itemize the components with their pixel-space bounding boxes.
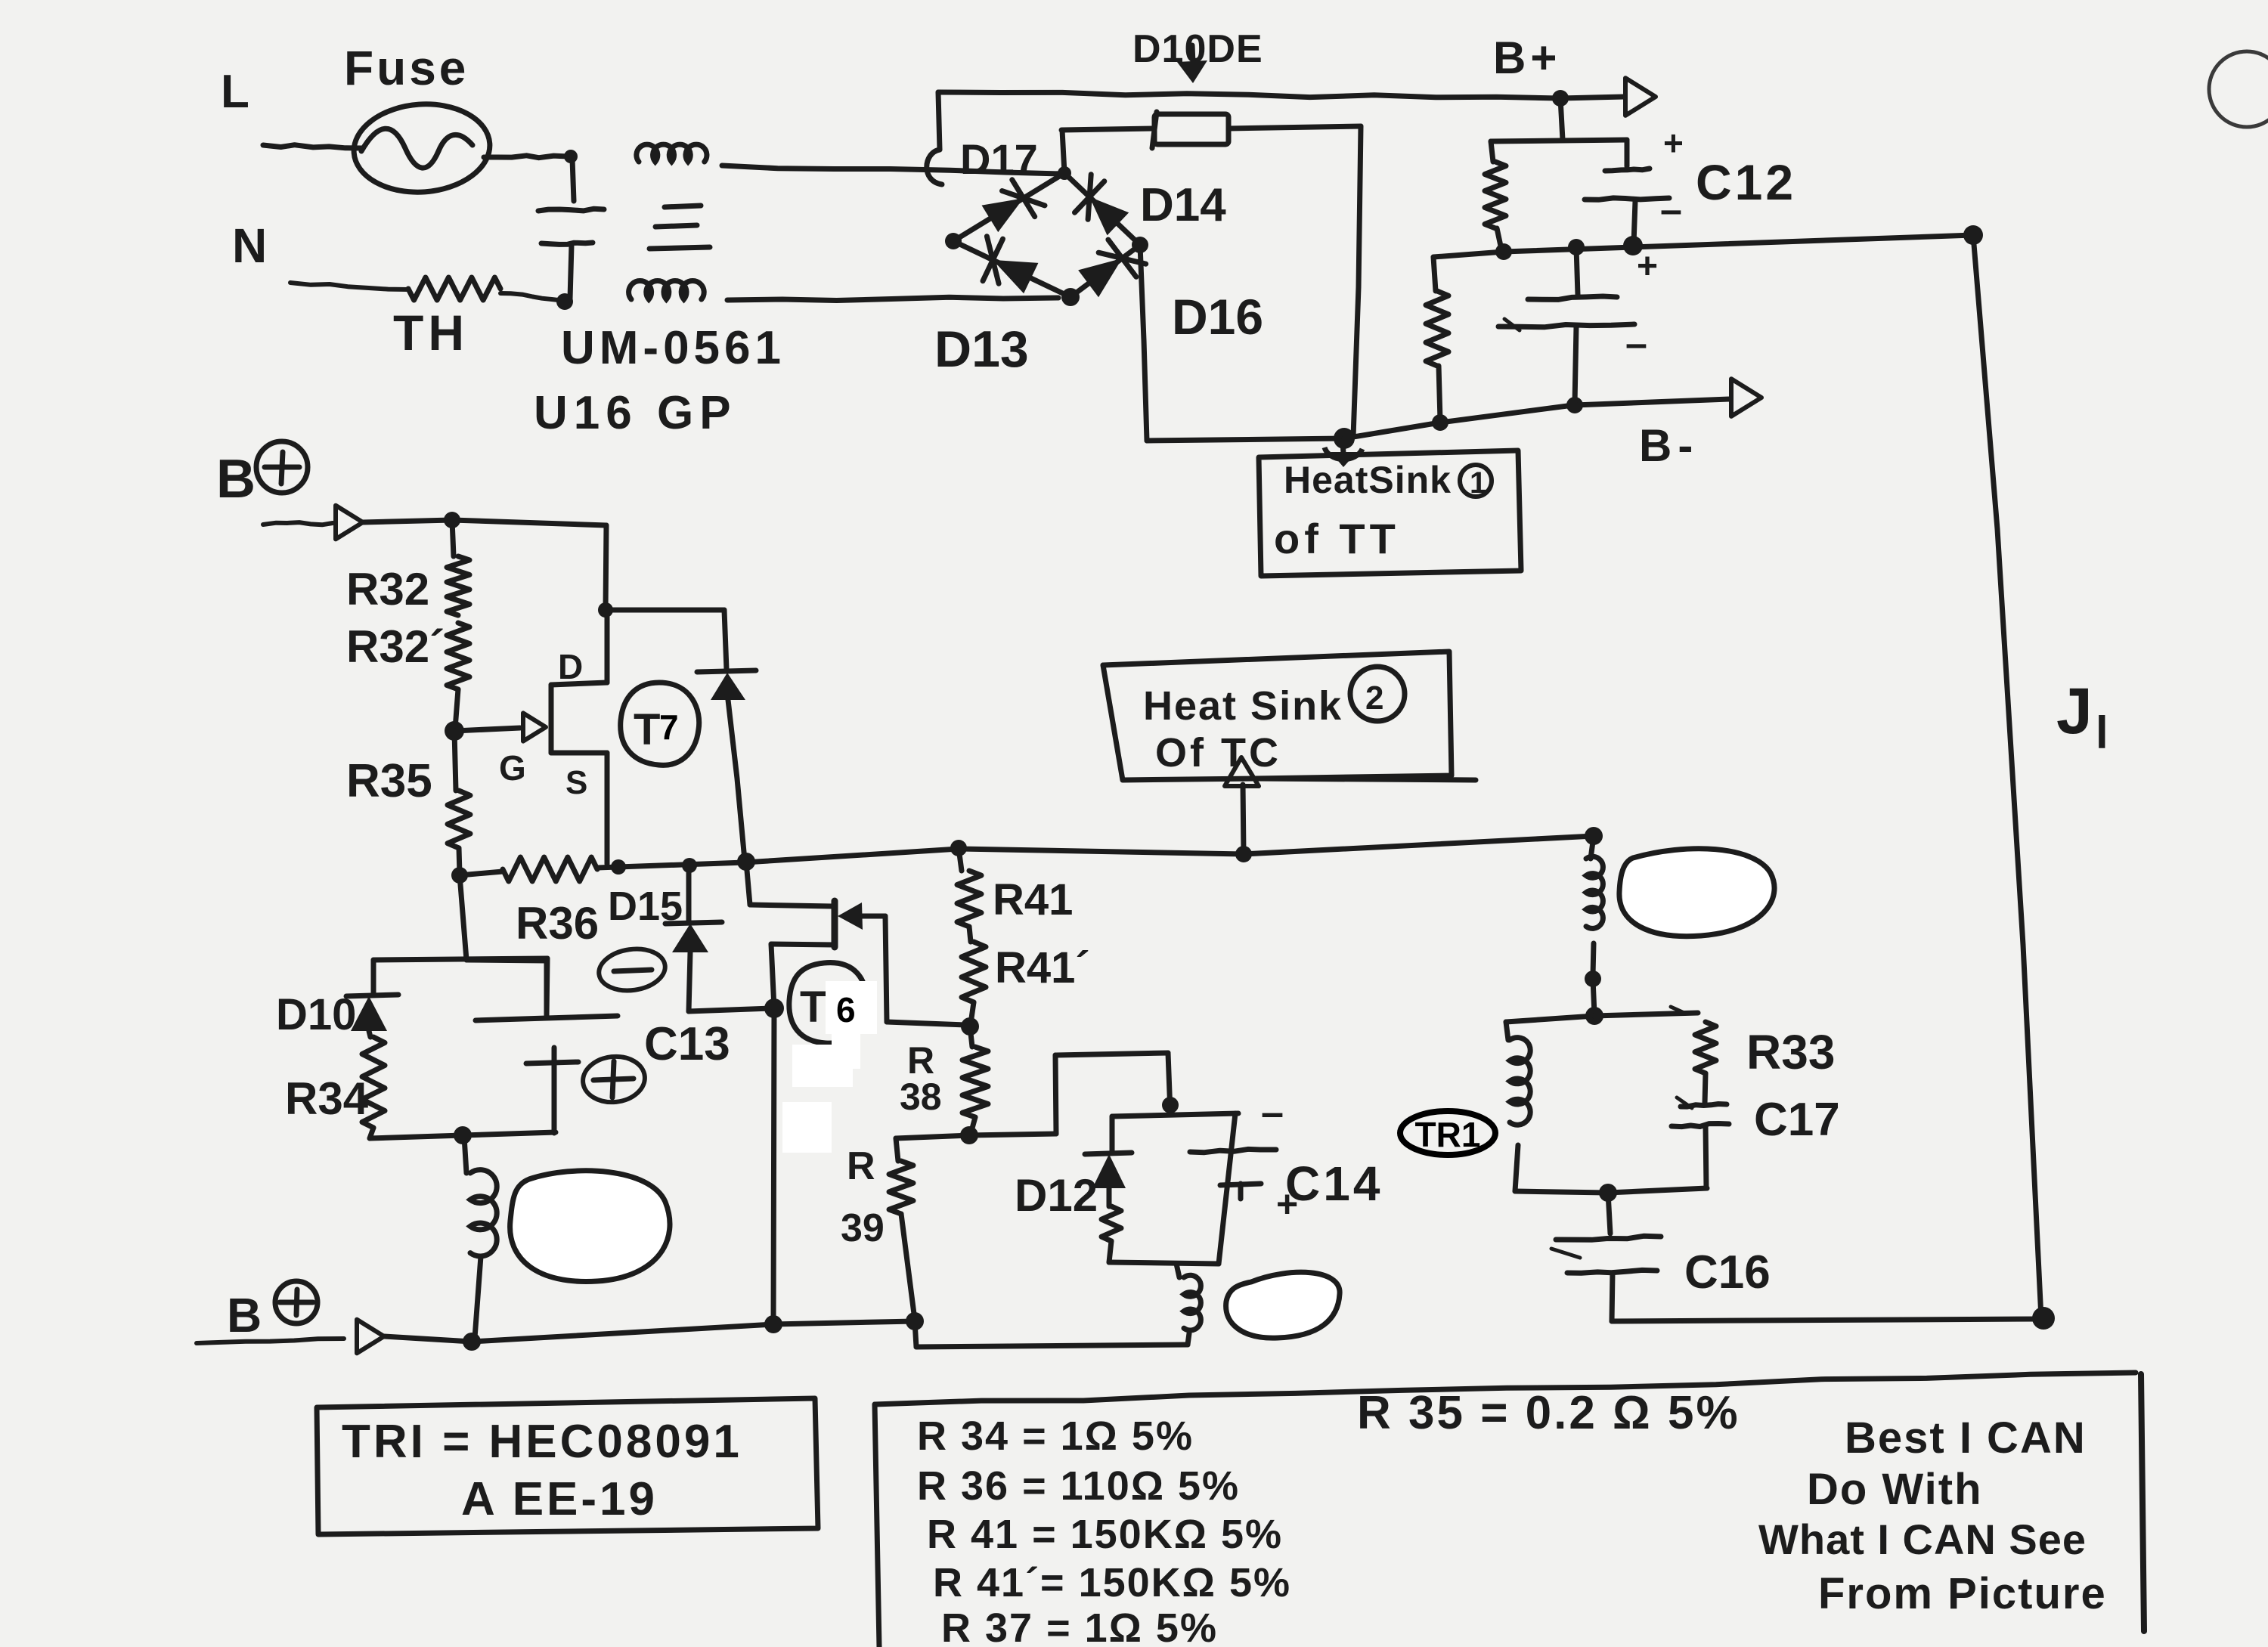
- wire R33 branch: [1594, 1007, 1698, 1016]
- label N: [232, 218, 267, 273]
- arrow B- output: [1731, 379, 1761, 416]
- label J1: [2056, 675, 2108, 758]
- svg-text:–: –: [1660, 188, 1682, 232]
- label R41: [993, 875, 1073, 924]
- fuse label: [344, 41, 469, 95]
- svg-text:R35: R35: [346, 755, 432, 807]
- wire T6 lower lead: [771, 944, 835, 1008]
- junction TR1 tap: [1585, 971, 1601, 987]
- label R36: [516, 898, 599, 949]
- svg-text:J: J: [2056, 675, 2093, 748]
- resistor R34: [362, 1031, 385, 1138]
- mosfet T7 symbol: [551, 610, 607, 864]
- wire mid rail: [1433, 235, 1973, 257]
- svg-text:l: l: [2096, 707, 2108, 758]
- label U16 GP: [534, 387, 737, 439]
- label of TT: [1274, 515, 1400, 562]
- note text best1: [1845, 1413, 2087, 1463]
- white patch T6: [782, 981, 877, 1153]
- svg-text:R36: R36: [516, 898, 599, 949]
- svg-text:R 41´= 150KΩ 5%: R 41´= 150KΩ 5%: [933, 1560, 1291, 1605]
- svg-text:L: L: [221, 66, 249, 118]
- inductor TR1 top choke: [1586, 836, 1603, 975]
- diode D15: [665, 868, 722, 1011]
- wire bridge top to fuse link: [1062, 130, 1064, 173]
- oval TR1 (typed): [1400, 1111, 1495, 1155]
- junction B- T6: [764, 1315, 782, 1333]
- inductor N-line choke: [629, 280, 705, 299]
- svg-text:D: D: [558, 647, 583, 686]
- white blob left: [510, 1171, 670, 1282]
- resistor R38: [962, 1026, 988, 1134]
- note text R41: [927, 1512, 1283, 1557]
- junction B- under divider: [1432, 414, 1448, 431]
- diode D10: [346, 995, 398, 1031]
- svg-text:C13: C13: [644, 1018, 730, 1070]
- label C13: [644, 1018, 730, 1070]
- arrow T6 emitter: [838, 902, 965, 1025]
- wire TH to junction: [500, 293, 565, 301]
- svg-text:1: 1: [1470, 466, 1486, 500]
- diode D12: [1085, 1116, 1132, 1206]
- wire B- to arrow: [1575, 399, 1730, 405]
- resistor R36: [503, 857, 597, 881]
- label S (source): [565, 764, 587, 801]
- svg-text:D13: D13: [934, 320, 1029, 378]
- svg-text:38: 38: [900, 1076, 942, 1118]
- svg-text:TR1: TR1: [1415, 1115, 1481, 1154]
- wire bridge right node down: [1140, 245, 1147, 441]
- label TH: [393, 305, 469, 361]
- transistor T6 bar: [832, 901, 838, 947]
- junction B- choke: [463, 1333, 481, 1351]
- heatsink 1 box: [1259, 450, 1521, 576]
- resistor R32p: [447, 623, 469, 729]
- svg-text:G: G: [499, 748, 526, 788]
- svg-text:B: B: [227, 1288, 262, 1342]
- svg-text:UM-0561: UM-0561: [561, 322, 785, 374]
- capacitor C12 lower: [1498, 246, 1658, 404]
- note box TR1=HEC: [317, 1398, 818, 1534]
- wire B- rail from bridge: [1147, 405, 1573, 441]
- plus oval C13: [581, 1054, 647, 1105]
- junction B- R39: [906, 1312, 924, 1330]
- svg-text:U16 GP: U16 GP: [534, 387, 737, 439]
- wire B- rail: [384, 1321, 915, 1342]
- svg-text:C12: C12: [1696, 154, 1796, 210]
- note box left edge: [875, 1404, 879, 1647]
- label D15: [608, 884, 683, 929]
- junction R34-C13 node: [454, 1126, 472, 1144]
- wire rail2 corner down: [606, 525, 606, 610]
- junction rail2 right end: [1585, 827, 1603, 845]
- wire L to filter: [484, 156, 569, 158]
- label C17: [1754, 1094, 1840, 1146]
- label C16: [1684, 1246, 1771, 1299]
- svg-text:B+: B+: [1493, 33, 1561, 83]
- svg-text:R 36 = 110Ω 5%: R 36 = 110Ω 5%: [917, 1463, 1240, 1509]
- svg-text:C14: C14: [1285, 1156, 1383, 1211]
- svg-text:R 41 = 150KΩ 5%: R 41 = 150KΩ 5%: [927, 1512, 1283, 1557]
- svg-text:HeatSink: HeatSink: [1284, 459, 1452, 501]
- wire divider top: [1491, 140, 1627, 141]
- svg-text:R34: R34: [285, 1073, 369, 1124]
- label R39: [841, 1144, 885, 1250]
- svg-text:R 35 = 0.2 Ω 5%: R 35 = 0.2 Ω 5%: [1357, 1387, 1740, 1439]
- thermistor TH: [408, 277, 500, 300]
- arrow to heatsink 1: [1325, 441, 1362, 467]
- svg-text:T: T: [800, 983, 826, 1032]
- wire T6 collector: [746, 862, 832, 906]
- junction bridge bottom: [1061, 288, 1080, 306]
- arrow B+ output: [1625, 78, 1656, 116]
- label 6 typed: [836, 990, 856, 1029]
- diode D13 bridge lower-left: [953, 237, 1070, 297]
- junction bridge top: [1058, 166, 1071, 180]
- junction rail2 T6: [737, 853, 755, 871]
- wire D10 box top: [373, 958, 547, 1016]
- label R34: [285, 1073, 369, 1124]
- note text R35 value: [1357, 1387, 1740, 1439]
- inductor L-line choke: [637, 144, 707, 162]
- wire N choke to bridge: [727, 297, 1058, 300]
- label UM-0561: [561, 322, 785, 374]
- label R38: [900, 1039, 942, 1118]
- svg-text:of TT: of TT: [1274, 515, 1400, 562]
- capacitor C13 top plate: [476, 1016, 618, 1020]
- label Heat Sink 2: [1143, 667, 1405, 729]
- label B- circled (left): [227, 1281, 318, 1342]
- arrow DIODE pointing down: [1177, 45, 1207, 83]
- svg-text:7: 7: [659, 707, 679, 747]
- junction TR1 node: [1585, 1007, 1603, 1025]
- junction R32 top: [444, 512, 460, 528]
- resistor R upper (C12 bleeder): [1485, 141, 1506, 249]
- label B+ top: [1493, 33, 1561, 83]
- label R41p: [995, 943, 1090, 992]
- node N junction: [556, 293, 573, 310]
- junction J1 bottom: [2032, 1307, 2055, 1330]
- svg-text:TRI = HEC08091: TRI = HEC08091: [342, 1416, 742, 1468]
- note text best3: [1758, 1515, 2087, 1563]
- label DIODE: [1132, 27, 1263, 71]
- svg-text:From Picture: From Picture: [1818, 1569, 2107, 1618]
- wire bump at L junction: [927, 150, 942, 184]
- wire R38 to C14 box: [969, 1053, 1170, 1135]
- wire L choke to bridge: [722, 166, 1061, 174]
- note box right edge: [2141, 1374, 2144, 1631]
- svg-text:6: 6: [836, 990, 856, 1029]
- wire top-left vertical: [938, 92, 940, 150]
- label B-: [1639, 420, 1699, 471]
- junction mid rail left: [1568, 239, 1585, 255]
- wire tap to node: [1593, 979, 1594, 1014]
- label D (drain): [558, 647, 583, 686]
- junction rail2 left: [451, 867, 468, 884]
- note text best4: [1818, 1569, 2107, 1618]
- arrow B- rail: [357, 1320, 384, 1354]
- junction C14 box top: [1162, 1097, 1179, 1113]
- capacitor C13 bottom plate: [526, 1048, 578, 1133]
- svg-text:R32´: R32´: [346, 621, 445, 672]
- wire TR1 left branch: [1506, 1016, 1594, 1040]
- label D17: [960, 135, 1038, 183]
- svg-text:A EE-19: A EE-19: [461, 1473, 658, 1525]
- label R33: [1746, 1025, 1835, 1079]
- wire R34 bottom: [370, 1132, 556, 1138]
- scan artifact circle top-right: [2209, 51, 2268, 127]
- arrow heatsink 2: [1225, 757, 1259, 853]
- resistor R35: [448, 731, 470, 874]
- minus oval mark: [596, 945, 668, 995]
- wire B+ rail2 in: [263, 522, 333, 525]
- label R32p: [346, 621, 445, 672]
- svg-text:–: –: [1625, 322, 1647, 366]
- resistor R32: [447, 520, 469, 615]
- resistor R41p: [962, 942, 986, 1023]
- resistor R33: [1695, 1022, 1716, 1104]
- junction TR1 bottom: [1599, 1184, 1617, 1202]
- svg-text:R33: R33: [1746, 1025, 1835, 1079]
- svg-text:C16: C16: [1684, 1246, 1771, 1299]
- junction T6 base: [764, 998, 784, 1018]
- label G (gate): [499, 748, 526, 788]
- white blob TR1: [1619, 849, 1774, 936]
- transformer core lines: [649, 206, 710, 249]
- note text R37: [941, 1605, 1218, 1647]
- svg-text:R41´: R41´: [995, 943, 1090, 992]
- junction B- at C12: [1566, 397, 1583, 413]
- label Of TC: [1155, 730, 1281, 776]
- diode D16 bridge lower-right: [1070, 240, 1146, 297]
- wire bottom rail right: [1612, 1319, 2041, 1321]
- arrow gate: [523, 713, 546, 741]
- note text R41p: [933, 1560, 1291, 1605]
- junction B+ top: [1552, 90, 1569, 107]
- fuse F1 body: [351, 100, 493, 197]
- inductor choke left: [464, 1137, 497, 1338]
- note long top line: [875, 1373, 2136, 1404]
- label D13: [934, 320, 1029, 378]
- wire TR1 bottom: [1515, 1188, 1707, 1193]
- svg-text:R 34 = 1Ω 5%: R 34 = 1Ω 5%: [917, 1413, 1194, 1459]
- arrow B+ rail2: [336, 506, 363, 540]
- svg-text:R41: R41: [993, 875, 1073, 924]
- label D14: [1140, 179, 1226, 231]
- diode D14 bridge upper-right: [1064, 173, 1140, 245]
- inductor TR1 primary: [1510, 1038, 1530, 1191]
- svg-text:Of TC: Of TC: [1155, 730, 1281, 776]
- capacitor C17: [1672, 1097, 1729, 1188]
- svg-text:Do With: Do With: [1807, 1465, 1983, 1514]
- wire gate: [454, 728, 520, 731]
- capacitor C16: [1551, 1193, 1661, 1321]
- junction bridge right: [1132, 237, 1148, 253]
- capacitor line filter X-cap: [538, 159, 604, 299]
- transistor T7 circle: [621, 683, 699, 765]
- svg-text:–: –: [1261, 1090, 1284, 1135]
- note text TRI=HEC08091: [342, 1416, 742, 1468]
- svg-text:N: N: [232, 218, 267, 273]
- junction rail2 a: [611, 859, 626, 875]
- wire D12 loop bottom: [915, 1321, 1189, 1347]
- wire N input: [290, 283, 408, 289]
- label D16: [1172, 289, 1263, 345]
- svg-text:Fuse: Fuse: [344, 41, 469, 95]
- svg-text:D14: D14: [1140, 179, 1226, 231]
- diode D17 bridge upper-left: [953, 173, 1064, 241]
- svg-text:S: S: [565, 764, 587, 801]
- svg-text:+: +: [1637, 246, 1658, 286]
- svg-text:T: T: [634, 705, 660, 754]
- svg-text:D16: D16: [1172, 289, 1263, 345]
- svg-text:Best I CAN: Best I CAN: [1845, 1413, 2087, 1463]
- wire rail2 long: [460, 836, 1594, 875]
- svg-text:Heat Sink: Heat Sink: [1143, 683, 1343, 729]
- label C14: [1285, 1156, 1383, 1211]
- wire T6 base down: [773, 1008, 774, 1324]
- wire top rail to B+: [938, 92, 1559, 98]
- wire B+ down to divider: [1560, 98, 1563, 140]
- junction L-filter: [564, 150, 578, 163]
- resistor R lower (C12 bleeder 2): [1426, 257, 1448, 420]
- resistor R41: [957, 848, 981, 942]
- white blob D12: [1226, 1272, 1340, 1338]
- label D12: [1015, 1170, 1098, 1221]
- capacitor C12 upper: [1585, 123, 1684, 243]
- junction divider mid-left: [1495, 243, 1512, 260]
- wire R35 node down: [460, 875, 466, 960]
- wire C14 box top: [1112, 1113, 1238, 1116]
- capacitor C14: [1190, 1090, 1298, 1225]
- wire B+ rail2: [363, 520, 606, 525]
- svg-text:2: 2: [1365, 680, 1383, 717]
- svg-text:D12: D12: [1015, 1170, 1098, 1221]
- resistor R39: [889, 1135, 969, 1320]
- svg-text:39: 39: [841, 1206, 885, 1250]
- heatsink 2 box: [1103, 652, 1476, 780]
- note text best2: [1807, 1465, 1983, 1514]
- label B+ circled (left): [216, 441, 308, 509]
- wire C13 line A: [689, 1008, 771, 1011]
- svg-text:R: R: [847, 1144, 875, 1188]
- junction rail2 R41: [950, 840, 967, 856]
- label D10: [276, 990, 356, 1039]
- transistor T6 circle: [789, 963, 866, 1044]
- label HeatSink 1: [1284, 459, 1492, 501]
- junction mid rail corner J1: [1963, 225, 1983, 245]
- junction mid rail C12: [1623, 236, 1643, 255]
- resistor D12 series small: [1101, 1206, 1121, 1262]
- svg-text:TH: TH: [393, 305, 469, 361]
- white patch R38: [832, 1034, 860, 1069]
- junction bridge left: [945, 233, 962, 249]
- svg-text:R32: R32: [346, 564, 429, 615]
- junction R38-R39: [960, 1126, 978, 1144]
- wire C14 box bottom: [1109, 1113, 1235, 1264]
- wire jog to C13: [466, 960, 547, 1016]
- node L (line input label): [221, 66, 249, 118]
- label R32: [346, 564, 429, 615]
- svg-text:D17: D17: [960, 135, 1038, 183]
- wire right vertical to B- rail: [1353, 126, 1361, 437]
- svg-text:D15: D15: [608, 884, 683, 929]
- inductor D12 choke: [1176, 1264, 1201, 1330]
- wire B- rail left: [197, 1339, 344, 1343]
- svg-text:C17: C17: [1754, 1094, 1840, 1146]
- fuse link F2 rectangle: [1061, 112, 1361, 148]
- junction T7 drain node: [598, 602, 613, 618]
- wire L input: [263, 145, 361, 148]
- label C12: [1696, 154, 1796, 210]
- wire J1 vertical: [1973, 235, 2041, 1318]
- junction B- heatsink node: [1334, 428, 1355, 449]
- svg-text:What I CAN See: What I CAN See: [1758, 1515, 2087, 1563]
- note text R36: [917, 1463, 1240, 1509]
- junction gate node: [445, 721, 464, 741]
- svg-text:R 37 = 1Ω 5%: R 37 = 1Ω 5%: [941, 1605, 1218, 1647]
- junction rail2 D15: [682, 858, 697, 873]
- label R35: [346, 755, 432, 807]
- svg-text:B: B: [216, 449, 256, 509]
- junction rail2 heatsink: [1235, 846, 1252, 862]
- junction R41-R38: [961, 1017, 979, 1036]
- svg-text:+: +: [1663, 123, 1684, 163]
- svg-text:B-: B-: [1639, 420, 1699, 471]
- wire B+ to arrow: [1560, 97, 1624, 98]
- diode T7 protection: [606, 610, 756, 860]
- note text R34: [917, 1413, 1194, 1459]
- svg-text:D10: D10: [276, 990, 356, 1039]
- note text A EE-19: [461, 1473, 658, 1525]
